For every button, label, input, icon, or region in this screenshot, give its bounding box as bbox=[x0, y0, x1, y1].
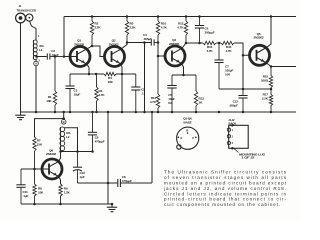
svg-text:1 OF J2: 1 OF J2 bbox=[241, 156, 255, 160]
junction Q1 emitter on row bbox=[88, 73, 91, 76]
junction rail / R5 bbox=[126, 15, 129, 18]
svg-text:2N3302: 2N3302 bbox=[169, 42, 179, 46]
svg-text:C: C bbox=[192, 136, 194, 140]
junction rail / C6 bbox=[198, 15, 201, 18]
junction ground bus x=92.5 bbox=[91, 111, 94, 114]
capacitor C13 (.1) bbox=[135, 74, 137, 87]
transistor Q6 bbox=[42, 159, 62, 179]
junction jack diagram bottom bbox=[231, 147, 234, 150]
capacitor C9 bbox=[92, 112, 94, 132]
svg-text:BASE: BASE bbox=[184, 121, 192, 125]
svg-text:2N3302: 2N3302 bbox=[74, 42, 84, 46]
wire Q2 collector line down to ground bus bbox=[144, 43, 146, 113]
capacitor C7 bbox=[218, 43, 220, 60]
svg-text:2.7K: 2.7K bbox=[95, 26, 102, 30]
svg-text:L1: L1 bbox=[39, 48, 43, 52]
resistor R10 bbox=[157, 17, 159, 22]
svg-text:470μμF: 470μμF bbox=[95, 140, 105, 144]
junction bottom rail / R8 bbox=[33, 203, 36, 206]
wire Q3 collector to R12 node bbox=[182, 43, 186, 48]
wire Q5 collector up to rail bbox=[266, 17, 271, 48]
junction C6 / R14 wire bbox=[198, 42, 201, 45]
wire Q3 emitter row left bbox=[172, 74, 184, 76]
junction rail / Q5 collector bbox=[270, 15, 273, 18]
capacitor C4 bbox=[127, 42, 151, 44]
junction rail / R12 bbox=[185, 15, 188, 18]
junction ground bus x=158 bbox=[157, 111, 160, 114]
resistor R13 bbox=[195, 75, 197, 91]
svg-text:4.7K: 4.7K bbox=[99, 93, 106, 97]
junction ground bus x=36 bbox=[35, 111, 38, 114]
junction L1 tap to C2 bbox=[35, 55, 38, 58]
svg-text:B: B bbox=[186, 129, 188, 133]
resistor R12 bbox=[185, 17, 187, 22]
junction ground bus x=96.5 bbox=[95, 111, 98, 114]
terminal A below L1 bbox=[34, 61, 39, 66]
junction Q6 base node bbox=[33, 168, 36, 171]
resistor R2 bbox=[91, 17, 93, 22]
wire L2 tap loop bbox=[64, 128, 77, 152]
capacitor C8 bbox=[78, 182, 118, 184]
capacitor C10 bbox=[77, 152, 79, 168]
junction ground bus x=271 bbox=[270, 111, 273, 114]
resistor R17 bbox=[270, 89, 272, 95]
wire interstage Q1 collector to Q2 base bbox=[92, 46, 105, 57]
junction ground bus x=108 bbox=[107, 111, 110, 114]
junction jack diagram top bbox=[231, 124, 234, 127]
junction ground bus x=55 bbox=[54, 111, 57, 114]
resistor R1 bbox=[54, 57, 56, 92]
svg-text:4.7K: 4.7K bbox=[207, 49, 214, 53]
svg-text:10K: 10K bbox=[108, 80, 114, 84]
wire Q2 emitter down to ground bus bbox=[120, 64, 123, 112]
resistor R5 bbox=[126, 17, 128, 22]
wire ground bus to bottom rail bbox=[107, 112, 109, 204]
svg-text:Circled letters indicate termi: Circled letters indicate terminal points… bbox=[164, 191, 286, 196]
junction R3 top on row bbox=[95, 73, 98, 76]
junction ground bus x=135.8 bbox=[135, 111, 138, 114]
junction ground bus x=63.7 bbox=[62, 111, 64, 114]
svg-text:mounted on a printed circuit b: mounted on a printed circuit board excep… bbox=[164, 180, 287, 185]
junction rail / R10 bbox=[157, 15, 160, 18]
wire L2 tap line bbox=[61, 151, 93, 153]
junction tap / C9 bbox=[91, 150, 94, 153]
svg-text:2.2K: 2.2K bbox=[262, 97, 269, 101]
svg-text:jacks J1 and J2, and volu: jacks J1 and J2, and volume control R18. bbox=[163, 186, 286, 191]
junction L2 line / R7 branch bbox=[62, 117, 64, 120]
svg-text:A: A bbox=[35, 62, 37, 66]
transistor Q2 bbox=[105, 47, 125, 67]
resistor R11 bbox=[157, 56, 159, 94]
svg-text:10μF: 10μF bbox=[74, 92, 81, 96]
junction ground bus x=243 bbox=[242, 111, 245, 114]
base diagram pin E bbox=[178, 137, 180, 139]
terminal B above L2 bbox=[61, 120, 66, 125]
svg-text:.005μF: .005μF bbox=[143, 37, 152, 41]
capacitor C11 bbox=[20, 169, 22, 185]
junction R1 top bbox=[54, 55, 57, 58]
wire bottom rail bbox=[21, 203, 112, 205]
svg-text:4.7K: 4.7K bbox=[161, 26, 168, 30]
wire L1 tap to C2 bbox=[37, 56, 47, 58]
junction Q2 collector node bbox=[126, 41, 129, 44]
wire Q1 collector to R2 bbox=[87, 46, 92, 49]
junction R14/R16/C7 bbox=[218, 42, 221, 45]
capacitor C2 bbox=[45, 56, 48, 58]
junction ground bus x=144.5 bbox=[143, 111, 146, 114]
resistor R9 bbox=[59, 184, 62, 196]
svg-text:The Ultrasonic Sniffer circ: The Ultrasonic Sniffer circuitry consist… bbox=[164, 170, 287, 175]
resistor R4 (emitter row) bbox=[104, 72, 116, 75]
wire emitter row right segment bbox=[116, 73, 136, 75]
junction C4 / R10 line bbox=[157, 41, 160, 44]
junction Q5 base corner bbox=[242, 54, 245, 57]
svg-text:200μμF: 200μμF bbox=[205, 31, 215, 35]
junction rail / R2 bbox=[91, 15, 94, 18]
wire R16 to Q5 base bbox=[234, 43, 249, 55]
wire base node to C11 bbox=[21, 168, 35, 170]
jack diagram rectangle bbox=[229, 125, 249, 148]
resistor R7 bbox=[33, 137, 36, 151]
transistor Q3 bbox=[165, 46, 185, 66]
svg-text:.005μF: .005μF bbox=[229, 104, 238, 108]
capacitor C3 bbox=[69, 74, 71, 86]
wire Q1 emitter down bbox=[87, 64, 89, 74]
junction ground bus x=172 bbox=[171, 111, 174, 114]
wire Q1 base bbox=[64, 56, 77, 58]
junction L2 bottom / Q6 collector bbox=[59, 150, 62, 153]
svg-text:100Ω: 100Ω bbox=[261, 79, 269, 83]
svg-text:1.2K: 1.2K bbox=[64, 190, 71, 194]
jack diagram terminal 2 bbox=[227, 135, 230, 138]
wire pointer to mounting lug text bbox=[234, 148, 239, 152]
wire jack tip to coil L1 top bbox=[30, 21, 36, 40]
svg-text:15K: 15K bbox=[37, 142, 43, 146]
svg-text:2N3302: 2N3302 bbox=[254, 35, 264, 39]
wire Q6 base bbox=[35, 168, 50, 170]
svg-text:10K: 10K bbox=[46, 99, 52, 103]
junction Q3 collector node bbox=[185, 42, 188, 45]
junction C12 line / C7 run bbox=[242, 88, 245, 91]
junction Q3 base / R11 bbox=[157, 55, 160, 58]
jack J1 tip contact circle bbox=[26, 14, 33, 21]
junction Q5 emitter / output bbox=[270, 65, 273, 68]
junction Q1 collector node bbox=[91, 45, 94, 48]
svg-text:4.7K: 4.7K bbox=[177, 26, 184, 30]
wire Q5 base line down bbox=[242, 55, 244, 89]
resistor R16 (series) bbox=[216, 42, 221, 44]
svg-text:TRANSDUCER: TRANSDUCER bbox=[17, 9, 37, 13]
wire rail left drop to Q1 base bbox=[63, 17, 65, 57]
wire jack sleeve down to ground bus bbox=[20, 23, 22, 112]
transistor Q1 bbox=[70, 47, 90, 67]
svg-text:10K: 10K bbox=[38, 190, 44, 194]
wire Q3 emitter row right bbox=[184, 74, 197, 76]
wire ground bus bbox=[20, 111, 296, 113]
wire C8 run up to ground bus bbox=[151, 112, 153, 183]
junction ground bus x=196 bbox=[195, 111, 198, 114]
svg-text:4.7K: 4.7K bbox=[226, 49, 233, 53]
wire Q5 emitter down bbox=[266, 63, 271, 67]
resistor R8 bbox=[34, 169, 36, 184]
junction Q3 emitter row bbox=[182, 74, 185, 77]
junction Q2 emitter / bias row bbox=[121, 73, 124, 76]
junction bottom rail / R9 bbox=[59, 203, 62, 206]
transistor base diagram circle bbox=[177, 127, 199, 149]
capacitor C12 bbox=[242, 89, 244, 96]
wire R10 line down to Q3 base bbox=[158, 43, 165, 57]
junction ground bus x=152 bbox=[151, 111, 154, 114]
wire top supply rail bbox=[64, 16, 296, 18]
svg-text:2N3302: 2N3302 bbox=[46, 152, 56, 156]
wire C7 bottom run to Q5 emitter node bbox=[219, 88, 271, 90]
svg-text:2N3302: 2N3302 bbox=[109, 42, 119, 46]
capacitor C5 (emitter bypass) bbox=[171, 75, 173, 86]
junction ground bus x=122 bbox=[121, 111, 124, 114]
junction C8 run / long vertical bbox=[107, 182, 110, 185]
wire emitter row left segment bbox=[70, 73, 104, 75]
junction ground bus x=219 bbox=[218, 111, 221, 114]
svg-text:470μμF: 470μμF bbox=[122, 179, 132, 183]
svg-text:4.7K: 4.7K bbox=[150, 100, 157, 104]
jack J1 plug symbol (outer ring) bbox=[16, 13, 26, 23]
svg-text:.1μF: .1μF bbox=[23, 194, 29, 198]
svg-text:1μF: 1μF bbox=[80, 175, 85, 179]
junction C4 wire / drop bbox=[143, 41, 146, 44]
inductor L2 bbox=[60, 127, 62, 151]
capacitor C6 bbox=[199, 17, 201, 26]
resistor R3 bbox=[96, 74, 98, 87]
junction R15/R17/C7 run bbox=[270, 88, 273, 91]
wire Q2 collector to R5 bbox=[121, 43, 127, 49]
wire Q6 collector up to L2 bbox=[59, 151, 61, 162]
resistor R15 bbox=[270, 67, 272, 76]
wire L1 bottom to terminal A bbox=[35, 60, 37, 62]
transistor Q5 bbox=[250, 45, 270, 65]
junction tap / C10 bbox=[76, 150, 79, 153]
svg-text:B: B bbox=[63, 120, 65, 124]
svg-text:L2: L2 bbox=[66, 135, 70, 139]
wire Q6 emitter down bbox=[59, 177, 61, 184]
inductor L1 bbox=[33, 40, 35, 60]
jack diagram terminal 1 bbox=[227, 128, 230, 131]
junction ground bus x=70 bbox=[69, 111, 72, 114]
svg-text:2.2K: 2.2K bbox=[130, 26, 137, 30]
resistor R14 (series) bbox=[186, 42, 203, 44]
ground symbol (bottom) bbox=[111, 204, 113, 207]
svg-text:of seven transistor stages: of seven transistor stages with all part… bbox=[164, 175, 287, 180]
wire terminal A down to ground bus bbox=[35, 66, 37, 112]
junction bottom rail / ground bbox=[111, 203, 114, 206]
wire output line to edge bbox=[271, 66, 296, 68]
jack diagram terminal 3 bbox=[227, 141, 230, 144]
wire R7 branch from L2 line bbox=[35, 119, 64, 137]
junction node base Q1 / bias line bbox=[63, 55, 66, 58]
wire Q3 emitter down bbox=[182, 64, 184, 75]
ground symbol (main) bbox=[20, 112, 22, 115]
svg-text:cuit components mounted on the: cuit components mounted on the cabinet. bbox=[164, 202, 280, 207]
wire ground bus to terminal B bbox=[63, 112, 65, 120]
